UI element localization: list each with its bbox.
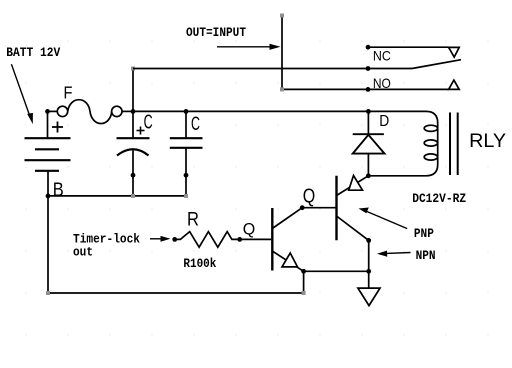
marker C1 foot	[131, 194, 135, 198]
pin NO	[366, 87, 371, 92]
marker OUT bottom	[280, 87, 284, 91]
wire NC line	[368, 46, 449, 48]
svg-text:Timer-lock: Timer-lock	[73, 233, 140, 247]
node diode top	[366, 109, 371, 114]
marker rail left	[46, 291, 50, 295]
svg-text:R100k: R100k	[183, 257, 216, 271]
pin C2 bottom	[184, 173, 189, 178]
annotation arrow PNP	[359, 208, 408, 229]
wire B node link	[48, 195, 186, 197]
wire common contact line	[133, 68, 412, 70]
wire C1 bottom lead	[132, 151, 134, 196]
wire riser to common contact	[132, 69, 134, 112]
marker rail right	[302, 291, 306, 295]
annotation arrow NPN	[377, 251, 411, 257]
wire NO line	[282, 88, 449, 90]
marker C2 foot	[184, 194, 188, 198]
relay core bars	[450, 113, 458, 176]
diode D1	[353, 111, 385, 175]
svg-text:B: B	[53, 180, 64, 201]
battery BT1	[25, 122, 71, 171]
capacitor C1 electrolytic	[117, 127, 150, 156]
svg-text:PNP: PNP	[414, 227, 434, 241]
node emitter link right	[366, 269, 371, 274]
contact NO triangle	[449, 80, 460, 89]
node Q2 collector	[366, 238, 371, 243]
resistor R1	[175, 232, 240, 248]
wire Q2 base	[302, 207, 336, 209]
wire emitter link	[304, 270, 369, 272]
wire ground stem	[368, 240, 370, 288]
transistor Q2 PNP	[337, 176, 369, 241]
annotation arrow to battery	[11, 64, 33, 124]
contact NC triangle	[449, 47, 460, 57]
wire battery bottom lead	[47, 171, 49, 293]
node C2 top	[184, 109, 189, 114]
svg-text:C: C	[191, 114, 200, 135]
svg-text:Q: Q	[243, 220, 256, 239]
node R right	[237, 237, 242, 242]
node diode bottom	[366, 173, 371, 178]
marker corner common	[131, 67, 135, 71]
svg-text:R: R	[187, 209, 199, 230]
wire C2 top lead	[185, 111, 187, 138]
pin NC	[366, 45, 371, 50]
wire emitter drop	[303, 271, 305, 293]
node +12V A	[131, 109, 136, 114]
ground	[358, 288, 380, 306]
transistor Q1 NPN	[272, 208, 303, 272]
wire battery top lead	[47, 111, 49, 138]
capacitor C2	[170, 138, 203, 148]
wire bottom rail	[48, 292, 304, 294]
svg-text:NPN: NPN	[416, 249, 436, 263]
svg-text:D: D	[379, 113, 389, 130]
switch blade	[412, 60, 461, 69]
svg-text:DC12V-RZ: DC12V-RZ	[412, 192, 466, 206]
node B	[46, 194, 51, 199]
svg-text:F: F	[64, 82, 73, 102]
wire OUT vertical	[281, 16, 283, 90]
fuse F1	[48, 100, 134, 124]
svg-text:Q: Q	[303, 185, 316, 207]
node Q1 emitter	[301, 269, 306, 274]
pin common	[366, 66, 371, 71]
wire C1 top lead	[132, 111, 134, 138]
node timer input	[172, 237, 177, 242]
annotation arrow OUT	[217, 44, 281, 50]
svg-text:out: out	[73, 246, 93, 260]
svg-text:NC: NC	[373, 48, 391, 64]
svg-text:OUT=INPUT: OUT=INPUT	[186, 26, 246, 40]
svg-text:C: C	[144, 111, 153, 133]
node Q1 collector / Q2 base	[300, 205, 305, 210]
relay coil RLY	[368, 111, 437, 175]
svg-text:BATT 12V: BATT 12V	[6, 46, 60, 60]
svg-text:NO: NO	[373, 75, 391, 91]
pin C1 bottom	[131, 173, 136, 178]
wire +12V rail	[133, 110, 368, 112]
marker OUT top	[280, 14, 284, 18]
svg-text:RLY: RLY	[469, 131, 506, 152]
annotation arrow timer	[150, 236, 171, 242]
wire R to Q1 base	[240, 238, 272, 240]
wire C2 bottom lead	[185, 148, 187, 196]
node battery plus junction	[45, 109, 50, 114]
